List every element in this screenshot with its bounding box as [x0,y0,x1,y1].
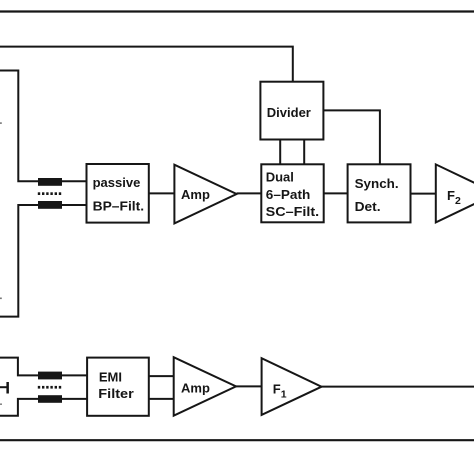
wire BP-Filt to Amp1 [149,192,175,194]
wire F1 output to right edge [322,386,474,388]
svg-text:Det.: Det. [355,199,381,214]
svg-text:Divider: Divider [267,105,311,120]
wire lower lead of bottom sensor box [0,399,87,416]
block passive BP-Filt [87,164,149,223]
svg-text:passive: passive [93,175,141,190]
svg-text:EMI: EMI [99,369,122,384]
svg-text:BP–Filt.: BP–Filt. [93,199,144,214]
wire Divider to Synch Det [323,110,380,164]
shielded sensor box top (cut off at left) with upper lead wire [0,71,87,182]
ferrite bead upper (bottom channel) [38,372,62,380]
shielded sensor box bottom (cut off at left) with upper lead wire [0,358,87,376]
svg-text:Dual: Dual [266,170,294,185]
sensor symbol H vertical bar [6,382,8,394]
wire EMI Filter to Amp2 upper [149,375,174,377]
label fragment 2 in top sensor box (cut) [0,298,2,300]
dotted cable marker (top channel) [38,192,61,195]
sensor symbol H (cut off) crossbar [0,386,7,388]
wire lower lead of top sensor box [0,205,87,317]
svg-text:6–Path: 6–Path [266,187,311,202]
wire Amp1 to Dual 6-Path SC-Filt [237,192,262,194]
svg-text:Synch.: Synch. [355,176,399,191]
wire shield line top [0,10,474,12]
block Synch Det [348,164,411,222]
wire Synch Det to F2 [411,193,436,195]
ferrite bead lower (bottom channel) [38,395,62,403]
amplifier F2 (output, clipped at right edge) [436,164,474,222]
ferrite bead lower (top channel) [38,201,62,209]
wire EMI Filter to Amp2 lower [149,398,174,400]
svg-text:Amp: Amp [181,187,210,202]
label fragment below sensor symbol (cut) [0,403,2,405]
wire Dual to Synch Det [324,192,348,194]
svg-text:SC–Filt.: SC–Filt. [266,204,320,219]
ferrite bead upper (top channel) [38,178,62,186]
amplifier F1 (bottom output) [262,358,322,415]
wire Divider to Dual right clock [303,140,305,165]
dotted cable marker (bottom channel) [38,386,61,389]
amplifier Amp1 (top channel) [174,165,236,224]
wire reference line to Divider [0,47,293,82]
wire Divider to Dual left clock [279,140,281,165]
block EMI Filter [87,358,149,416]
label fragment in top sensor box (cut) [0,122,2,124]
svg-text:Filter: Filter [98,386,134,401]
amplifier Amp2 (bottom channel) [174,357,236,416]
block Dual 6-Path SC-Filt [261,164,323,222]
block Divider [260,82,323,140]
wire shield line bottom [0,439,474,441]
wire Amp2 to F1 [236,385,262,387]
svg-text:Amp: Amp [181,380,210,395]
